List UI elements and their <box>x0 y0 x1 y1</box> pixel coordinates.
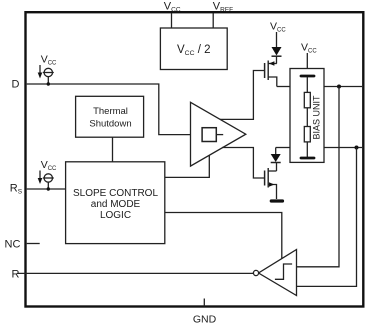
wire RS to slope control <box>27 188 66 190</box>
svg-text:VCC: VCC <box>270 21 286 34</box>
current source I1 on D input <box>38 54 57 86</box>
wire R1 to R2 <box>306 108 308 127</box>
wire slope control to driver <box>165 155 210 177</box>
pin D (left) <box>12 79 20 91</box>
CANL net wire to pin <box>324 146 362 150</box>
pin NC (left) <box>5 239 40 251</box>
pin VREF (top) <box>213 1 233 29</box>
wire thermal shutdown to logic <box>112 137 114 162</box>
transistor Q2 (NMOS low-side) <box>265 168 277 199</box>
pin RS (left) <box>10 183 23 196</box>
driver amplifier U1 <box>191 102 246 166</box>
svg-text:Shutdown: Shutdown <box>89 118 131 129</box>
VCC label for bias unit <box>301 42 317 55</box>
diode D1 <box>272 32 282 64</box>
svg-text:SLOPE CONTROL: SLOPE CONTROL <box>73 188 158 199</box>
receiver comparator U2 <box>253 250 296 296</box>
current source I2 on RS input <box>38 159 57 191</box>
svg-text:and MODE: and MODE <box>91 199 141 210</box>
svg-text:BIAS UNIT: BIAS UNIT <box>311 95 321 140</box>
pin R (left) <box>12 269 20 281</box>
CANL wire down to receiver <box>297 148 357 287</box>
bias switch bar bottom <box>301 142 314 158</box>
svg-text:D: D <box>12 79 20 91</box>
wire D to driver input <box>27 84 202 135</box>
wire driver to Q1 gate <box>220 71 265 120</box>
wire mode logic to receiver enable <box>165 213 282 259</box>
CANH net wire to pin <box>324 85 362 89</box>
svg-text:Thermal: Thermal <box>93 106 128 117</box>
svg-text:VCC: VCC <box>301 42 317 55</box>
transistor Q1 (PMOS high-side) <box>265 61 277 87</box>
wire VCC to bias unit <box>306 53 308 76</box>
pin GND (bottom) <box>193 299 217 323</box>
bias switch bar top <box>301 76 314 92</box>
svg-text:LOGIC: LOGIC <box>100 210 131 221</box>
svg-text:NC: NC <box>5 239 21 251</box>
VCC/2 reference box <box>160 28 227 70</box>
ground bar for Q2 <box>271 199 282 202</box>
svg-text:VREF: VREF <box>213 1 233 14</box>
svg-text:R: R <box>12 269 20 281</box>
wire R output from receiver <box>18 272 254 274</box>
VCC label for Q1 <box>270 21 286 34</box>
wire driver to Q2 gate <box>222 148 265 179</box>
SLOPE CONTROL and MODE LOGIC box <box>66 162 165 244</box>
CANH wire down to receiver <box>297 87 340 267</box>
resistor R1 <box>304 92 310 107</box>
svg-text:GND: GND <box>193 313 217 323</box>
diode D2 <box>271 148 281 172</box>
svg-text:VCC: VCC <box>41 159 57 172</box>
BIAS UNIT box <box>290 69 324 163</box>
wire D2 anode to CANL net <box>276 147 290 149</box>
wire Q1 drain to CANH net <box>277 86 290 88</box>
svg-text:VCC: VCC <box>41 54 57 67</box>
svg-text:RS: RS <box>10 183 23 196</box>
svg-text:VCC / 2: VCC / 2 <box>177 44 210 57</box>
pin VCC (top) <box>164 1 181 29</box>
Thermal Shutdown box <box>76 96 144 137</box>
svg-text:VCC: VCC <box>164 1 181 14</box>
resistor R2 <box>304 127 310 142</box>
